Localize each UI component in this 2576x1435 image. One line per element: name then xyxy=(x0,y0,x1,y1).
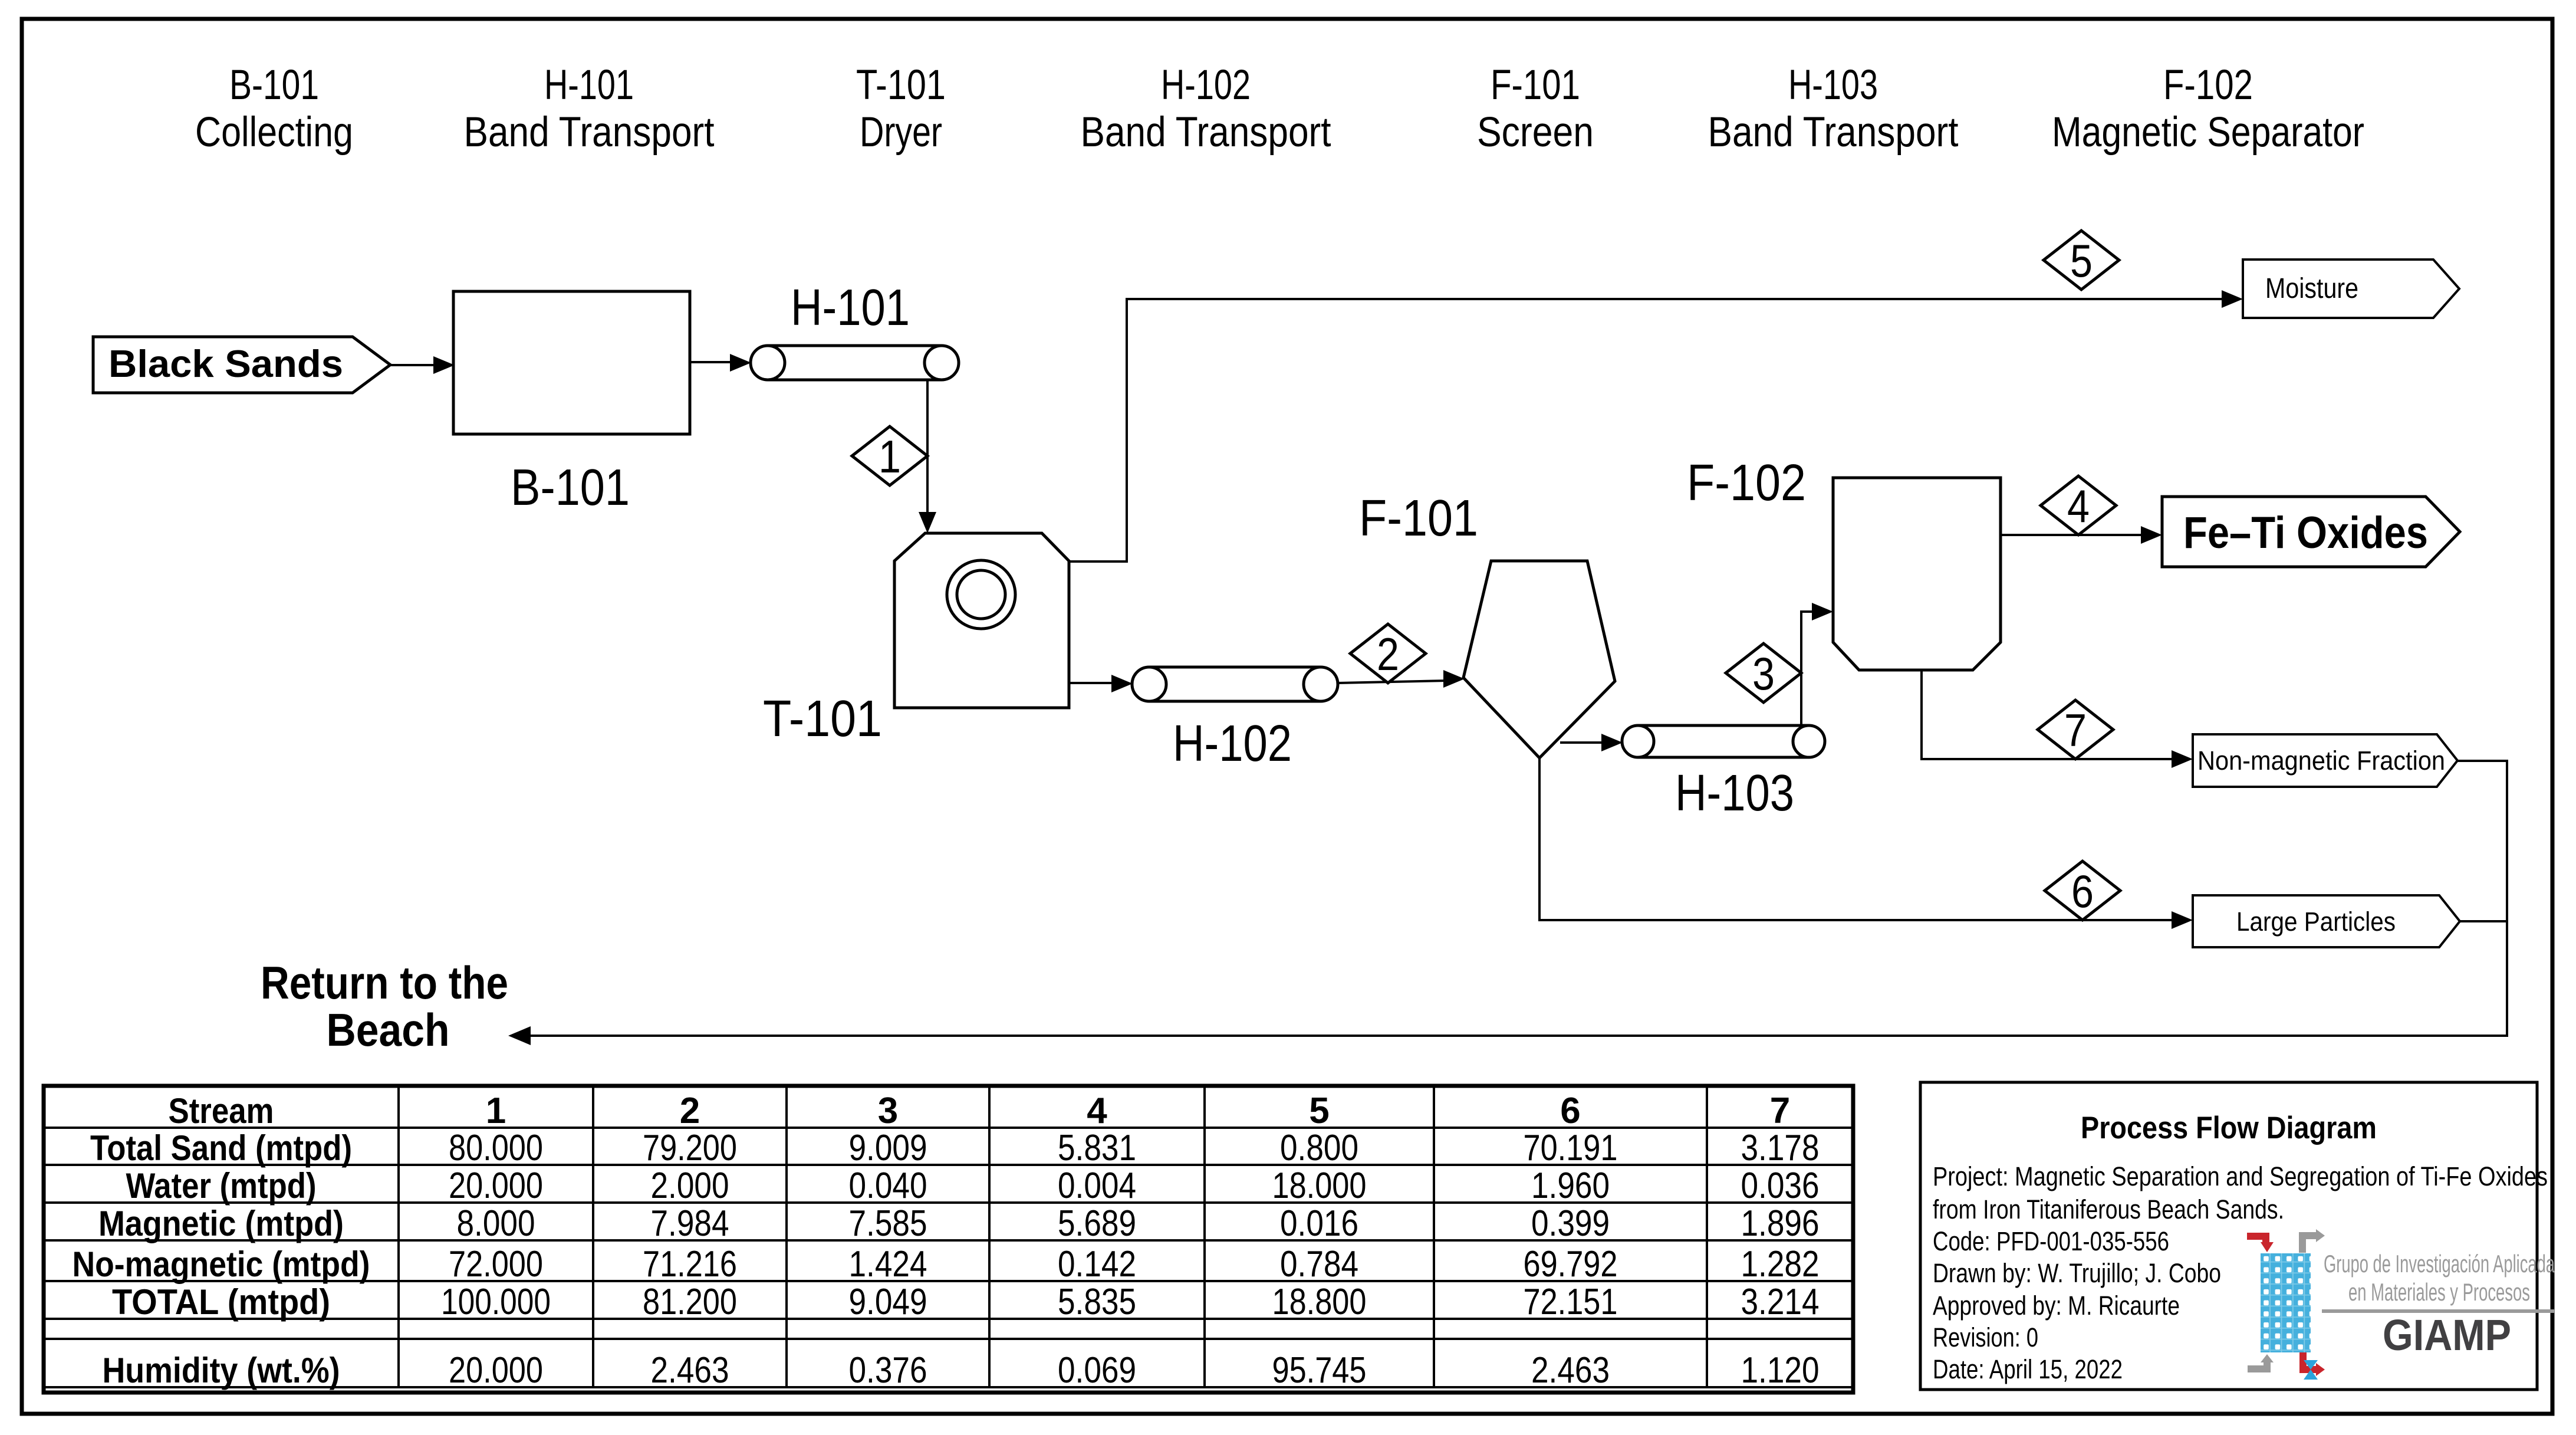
wire H-103 to F-102 xyxy=(1801,603,1833,725)
svg-text:3: 3 xyxy=(1752,648,1775,700)
svg-text:Revision: 0: Revision: 0 xyxy=(1933,1322,2038,1352)
svg-text:0.399: 0.399 xyxy=(1531,1203,1610,1244)
svg-text:0.800: 0.800 xyxy=(1280,1128,1358,1168)
svg-text:from Iron Titaniferous Beach S: from Iron Titaniferous Beach Sands. xyxy=(1933,1194,2284,1224)
header label H-102 Band Transport xyxy=(1081,62,1331,156)
svg-text:H-102: H-102 xyxy=(1173,715,1292,772)
svg-text:en Materiales y Procesos: en Materiales y Procesos xyxy=(2348,1278,2530,1306)
svg-text:3.178: 3.178 xyxy=(1741,1128,1820,1168)
svg-text:0.376: 0.376 xyxy=(849,1350,927,1391)
svg-text:F-102: F-102 xyxy=(1687,454,1806,511)
svg-text:T-101: T-101 xyxy=(763,690,882,747)
svg-text:Drawn by: W. Trujillo; J. Cobo: Drawn by: W. Trujillo; J. Cobo xyxy=(1933,1258,2221,1288)
stream flag Non-magnetic Fraction xyxy=(2193,734,2457,787)
svg-text:Band Transport: Band Transport xyxy=(464,109,715,156)
svg-text:F-101: F-101 xyxy=(1359,490,1478,547)
wire F-101 to Large Particles xyxy=(1539,758,2193,929)
svg-text:Fe–Ti Oxides: Fe–Ti Oxides xyxy=(2183,508,2428,558)
svg-text:6: 6 xyxy=(2071,865,2094,917)
svg-text:72.000: 72.000 xyxy=(449,1244,543,1285)
svg-text:Date: April 15, 2022: Date: April 15, 2022 xyxy=(1933,1354,2123,1384)
svg-text:7.585: 7.585 xyxy=(849,1203,927,1244)
svg-text:2: 2 xyxy=(1377,628,1399,680)
collecting unit B-101 xyxy=(453,291,690,434)
magnetic separator F-102 xyxy=(1833,478,2001,670)
svg-text:0.004: 0.004 xyxy=(1058,1165,1136,1206)
svg-text:Band Transport: Band Transport xyxy=(1081,109,1331,156)
wire B-101 to H-101 xyxy=(690,354,751,372)
svg-text:Total Sand (mtpd): Total Sand (mtpd) xyxy=(90,1128,352,1168)
svg-text:72.151: 72.151 xyxy=(1524,1282,1618,1322)
svg-text:1: 1 xyxy=(486,1091,506,1131)
svg-text:B-101: B-101 xyxy=(229,62,319,109)
wire T-101 vapor to Moisture xyxy=(1069,290,2243,561)
header label H-103 Band Transport xyxy=(1708,62,1959,156)
svg-text:Approved by: M. Ricaurte: Approved by: M. Ricaurte xyxy=(1933,1290,2180,1321)
svg-text:9.049: 9.049 xyxy=(849,1282,927,1322)
svg-text:3: 3 xyxy=(878,1091,898,1131)
stream flag Large Particles xyxy=(2193,895,2460,947)
svg-text:Magnetic Separator: Magnetic Separator xyxy=(2052,109,2364,156)
svg-text:0.036: 0.036 xyxy=(1741,1165,1820,1206)
stream flag Moisture xyxy=(2243,260,2459,318)
svg-text:4: 4 xyxy=(2067,480,2090,532)
svg-text:Code: PFD-001-035-556: Code: PFD-001-035-556 xyxy=(1933,1226,2169,1256)
header label H-101 Band Transport xyxy=(464,62,715,156)
svg-text:0.142: 0.142 xyxy=(1058,1244,1136,1285)
svg-text:F-101: F-101 xyxy=(1491,62,1580,109)
svg-text:Screen: Screen xyxy=(1477,109,1594,156)
header label F-102 Magnetic Separator xyxy=(2052,62,2364,156)
svg-text:7: 7 xyxy=(2064,704,2087,756)
stream diamond 1 xyxy=(852,426,927,485)
svg-text:0.069: 0.069 xyxy=(1058,1350,1136,1391)
svg-text:H-101: H-101 xyxy=(791,279,910,336)
svg-text:Magnetic (mtpd): Magnetic (mtpd) xyxy=(98,1204,344,1243)
svg-text:100.000: 100.000 xyxy=(441,1282,551,1322)
stream diamond 2 xyxy=(1350,624,1426,683)
stream diamond 5 xyxy=(2044,231,2119,290)
stream flag Black Sands xyxy=(93,337,390,393)
svg-text:Large Particles: Large Particles xyxy=(2236,907,2396,937)
svg-text:Non-magnetic Fraction: Non-magnetic Fraction xyxy=(2197,746,2445,776)
svg-text:80.000: 80.000 xyxy=(449,1128,543,1168)
svg-text:71.216: 71.216 xyxy=(643,1244,737,1285)
svg-text:18.800: 18.800 xyxy=(1272,1282,1367,1322)
svg-text:Stream: Stream xyxy=(169,1091,274,1131)
svg-text:T-101: T-101 xyxy=(856,62,946,109)
wire F-102 to Fe-Ti Oxides xyxy=(2001,526,2162,544)
stream data table xyxy=(44,1086,1853,1393)
svg-text:Water (mtpd): Water (mtpd) xyxy=(126,1166,317,1206)
svg-text:9.009: 9.009 xyxy=(849,1128,927,1168)
conveyor H-103 xyxy=(1622,725,1825,757)
svg-text:B-101: B-101 xyxy=(511,459,630,516)
svg-text:5.835: 5.835 xyxy=(1058,1282,1136,1322)
svg-text:8.000: 8.000 xyxy=(457,1203,535,1244)
wire T-101 to H-102 xyxy=(1069,675,1133,692)
conveyor H-102 xyxy=(1132,667,1338,701)
svg-text:H-103: H-103 xyxy=(1788,62,1878,109)
svg-text:TOTAL (mtpd): TOTAL (mtpd) xyxy=(112,1282,330,1322)
svg-text:5.689: 5.689 xyxy=(1058,1203,1136,1244)
stream diamond 3 xyxy=(1726,643,1801,702)
stream flag Fe-Ti Oxides xyxy=(2162,497,2460,567)
svg-text:2.463: 2.463 xyxy=(1531,1350,1610,1391)
stream diamond 7 xyxy=(2038,700,2113,759)
svg-text:3.214: 3.214 xyxy=(1741,1282,1820,1322)
svg-text:Beach: Beach xyxy=(327,1004,450,1056)
svg-text:H-101: H-101 xyxy=(544,62,634,109)
svg-text:1.120: 1.120 xyxy=(1741,1350,1820,1391)
svg-text:GIAMP: GIAMP xyxy=(2383,1311,2511,1360)
dryer T-101 xyxy=(894,533,1069,708)
wire return to the beach xyxy=(508,761,2507,1045)
svg-text:6: 6 xyxy=(1560,1091,1580,1131)
header label T-101 Dryer xyxy=(856,62,946,156)
wire H-102 to F-101 xyxy=(1338,670,1465,688)
wire F-101 to H-103 xyxy=(1560,734,1623,751)
svg-text:2: 2 xyxy=(680,1091,700,1131)
svg-text:H-103: H-103 xyxy=(1675,764,1794,822)
svg-text:18.000: 18.000 xyxy=(1272,1165,1367,1206)
wire F-102 to Non-magnetic Fraction xyxy=(1922,670,2193,768)
svg-text:20.000: 20.000 xyxy=(449,1350,543,1391)
conveyor H-101 xyxy=(751,346,959,380)
svg-text:5.831: 5.831 xyxy=(1058,1128,1136,1168)
svg-text:Moisture: Moisture xyxy=(2265,273,2358,304)
svg-text:95.745: 95.745 xyxy=(1272,1350,1367,1391)
svg-text:70.191: 70.191 xyxy=(1524,1128,1618,1168)
header label F-101 Screen xyxy=(1477,62,1594,156)
stream diamond 6 xyxy=(2045,861,2120,920)
svg-text:81.200: 81.200 xyxy=(643,1282,737,1322)
svg-text:Black Sands: Black Sands xyxy=(108,342,343,385)
svg-text:1.896: 1.896 xyxy=(1741,1203,1820,1244)
GIAMP logo xyxy=(2247,1229,2555,1380)
svg-text:Humidity (wt.%): Humidity (wt.%) xyxy=(103,1351,340,1390)
wire Black Sands to B-101 xyxy=(390,356,455,374)
svg-text:4: 4 xyxy=(1087,1091,1107,1131)
label Return to the Beach xyxy=(261,957,508,1056)
svg-text:1.960: 1.960 xyxy=(1531,1165,1610,1206)
svg-text:H-102: H-102 xyxy=(1161,62,1251,109)
svg-text:Return to the: Return to the xyxy=(261,957,508,1009)
svg-text:7.984: 7.984 xyxy=(651,1203,729,1244)
header label B-101 Collecting xyxy=(195,62,353,156)
svg-text:No-magnetic (mtpd): No-magnetic (mtpd) xyxy=(73,1244,370,1284)
svg-text:Process Flow Diagram: Process Flow Diagram xyxy=(2081,1111,2377,1145)
svg-text:69.792: 69.792 xyxy=(1524,1244,1618,1285)
svg-text:79.200: 79.200 xyxy=(643,1128,737,1168)
svg-text:Collecting: Collecting xyxy=(195,109,353,156)
svg-text:0.784: 0.784 xyxy=(1280,1244,1358,1285)
stream diamond 4 xyxy=(2041,476,2116,535)
svg-text:1.424: 1.424 xyxy=(849,1244,927,1285)
svg-text:1: 1 xyxy=(879,431,901,482)
wire H-101 to T-101 xyxy=(919,380,936,533)
svg-text:2.000: 2.000 xyxy=(651,1165,729,1206)
svg-text:F-102: F-102 xyxy=(2163,62,2253,109)
svg-text:Dryer: Dryer xyxy=(860,109,942,156)
svg-text:2.463: 2.463 xyxy=(651,1350,729,1391)
svg-text:5: 5 xyxy=(2070,235,2093,287)
svg-text:1.282: 1.282 xyxy=(1741,1244,1820,1285)
svg-text:5: 5 xyxy=(1309,1091,1329,1131)
screen F-101 xyxy=(1463,561,1615,758)
svg-text:Project: Magnetic Separation a: Project: Magnetic Separation and Segrega… xyxy=(1933,1161,2548,1191)
svg-text:7: 7 xyxy=(1770,1091,1790,1131)
svg-text:Grupo de Investigación Aplicad: Grupo de Investigación Aplicada xyxy=(2324,1250,2555,1278)
svg-text:20.000: 20.000 xyxy=(449,1165,543,1206)
title block xyxy=(1920,1082,2537,1390)
svg-text:0.016: 0.016 xyxy=(1280,1203,1358,1244)
svg-text:Band Transport: Band Transport xyxy=(1708,109,1959,156)
svg-text:0.040: 0.040 xyxy=(849,1165,927,1206)
